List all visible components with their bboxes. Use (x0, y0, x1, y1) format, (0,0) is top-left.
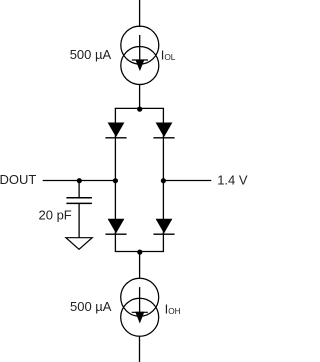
svg-text:DOUT: DOUT (0, 172, 36, 187)
wire bottom horizontal of diode bridge (115, 251, 164, 253)
diode D3 (lower left, pointing down) (105, 219, 126, 234)
node top junction dot (137, 107, 142, 112)
wire DOUT horizontal (43, 180, 116, 182)
current source IOL arrow (132, 35, 148, 71)
wire bottom supply lead (139, 337, 141, 362)
current source IOH symbol (two overlapping circles) (121, 278, 159, 336)
current source IOL symbol (two overlapping circles) (121, 26, 159, 84)
current source IOH arrow (132, 287, 148, 323)
svg-text:20 pF: 20 pF (39, 207, 72, 222)
svg-text:1.4 V: 1.4 V (217, 172, 248, 187)
node capacitor junction dot (77, 178, 82, 183)
ground symbol (66, 238, 92, 250)
diode D2 (upper right, pointing down) (153, 123, 174, 138)
wire capacitor top stem (78, 181, 80, 198)
wire top horizontal of diode bridge (115, 107, 164, 109)
capacitor C1 20 pF plates (66, 198, 92, 204)
node bottom junction dot (137, 250, 142, 255)
wire from IOL source to top node (139, 85, 141, 109)
svg-text:IOL: IOL (161, 47, 176, 62)
svg-text:IOH: IOH (165, 301, 181, 316)
wire from bottom node to IOH source (139, 252, 141, 279)
wire left branch vertical (114, 108, 116, 251)
wire right to 1.4V (163, 180, 211, 182)
node left mid junction dot (113, 178, 118, 183)
svg-text:500 µA: 500 µA (70, 47, 112, 62)
wire capacitor bottom stem (78, 204, 80, 238)
wire right branch vertical (162, 108, 164, 251)
svg-text:500 µA: 500 µA (70, 299, 112, 314)
diode D4 (lower right, pointing down) (153, 219, 174, 234)
node right mid junction dot (161, 178, 166, 183)
wire top supply lead (139, 0, 141, 27)
diode D1 (upper left, pointing down) (105, 123, 126, 138)
